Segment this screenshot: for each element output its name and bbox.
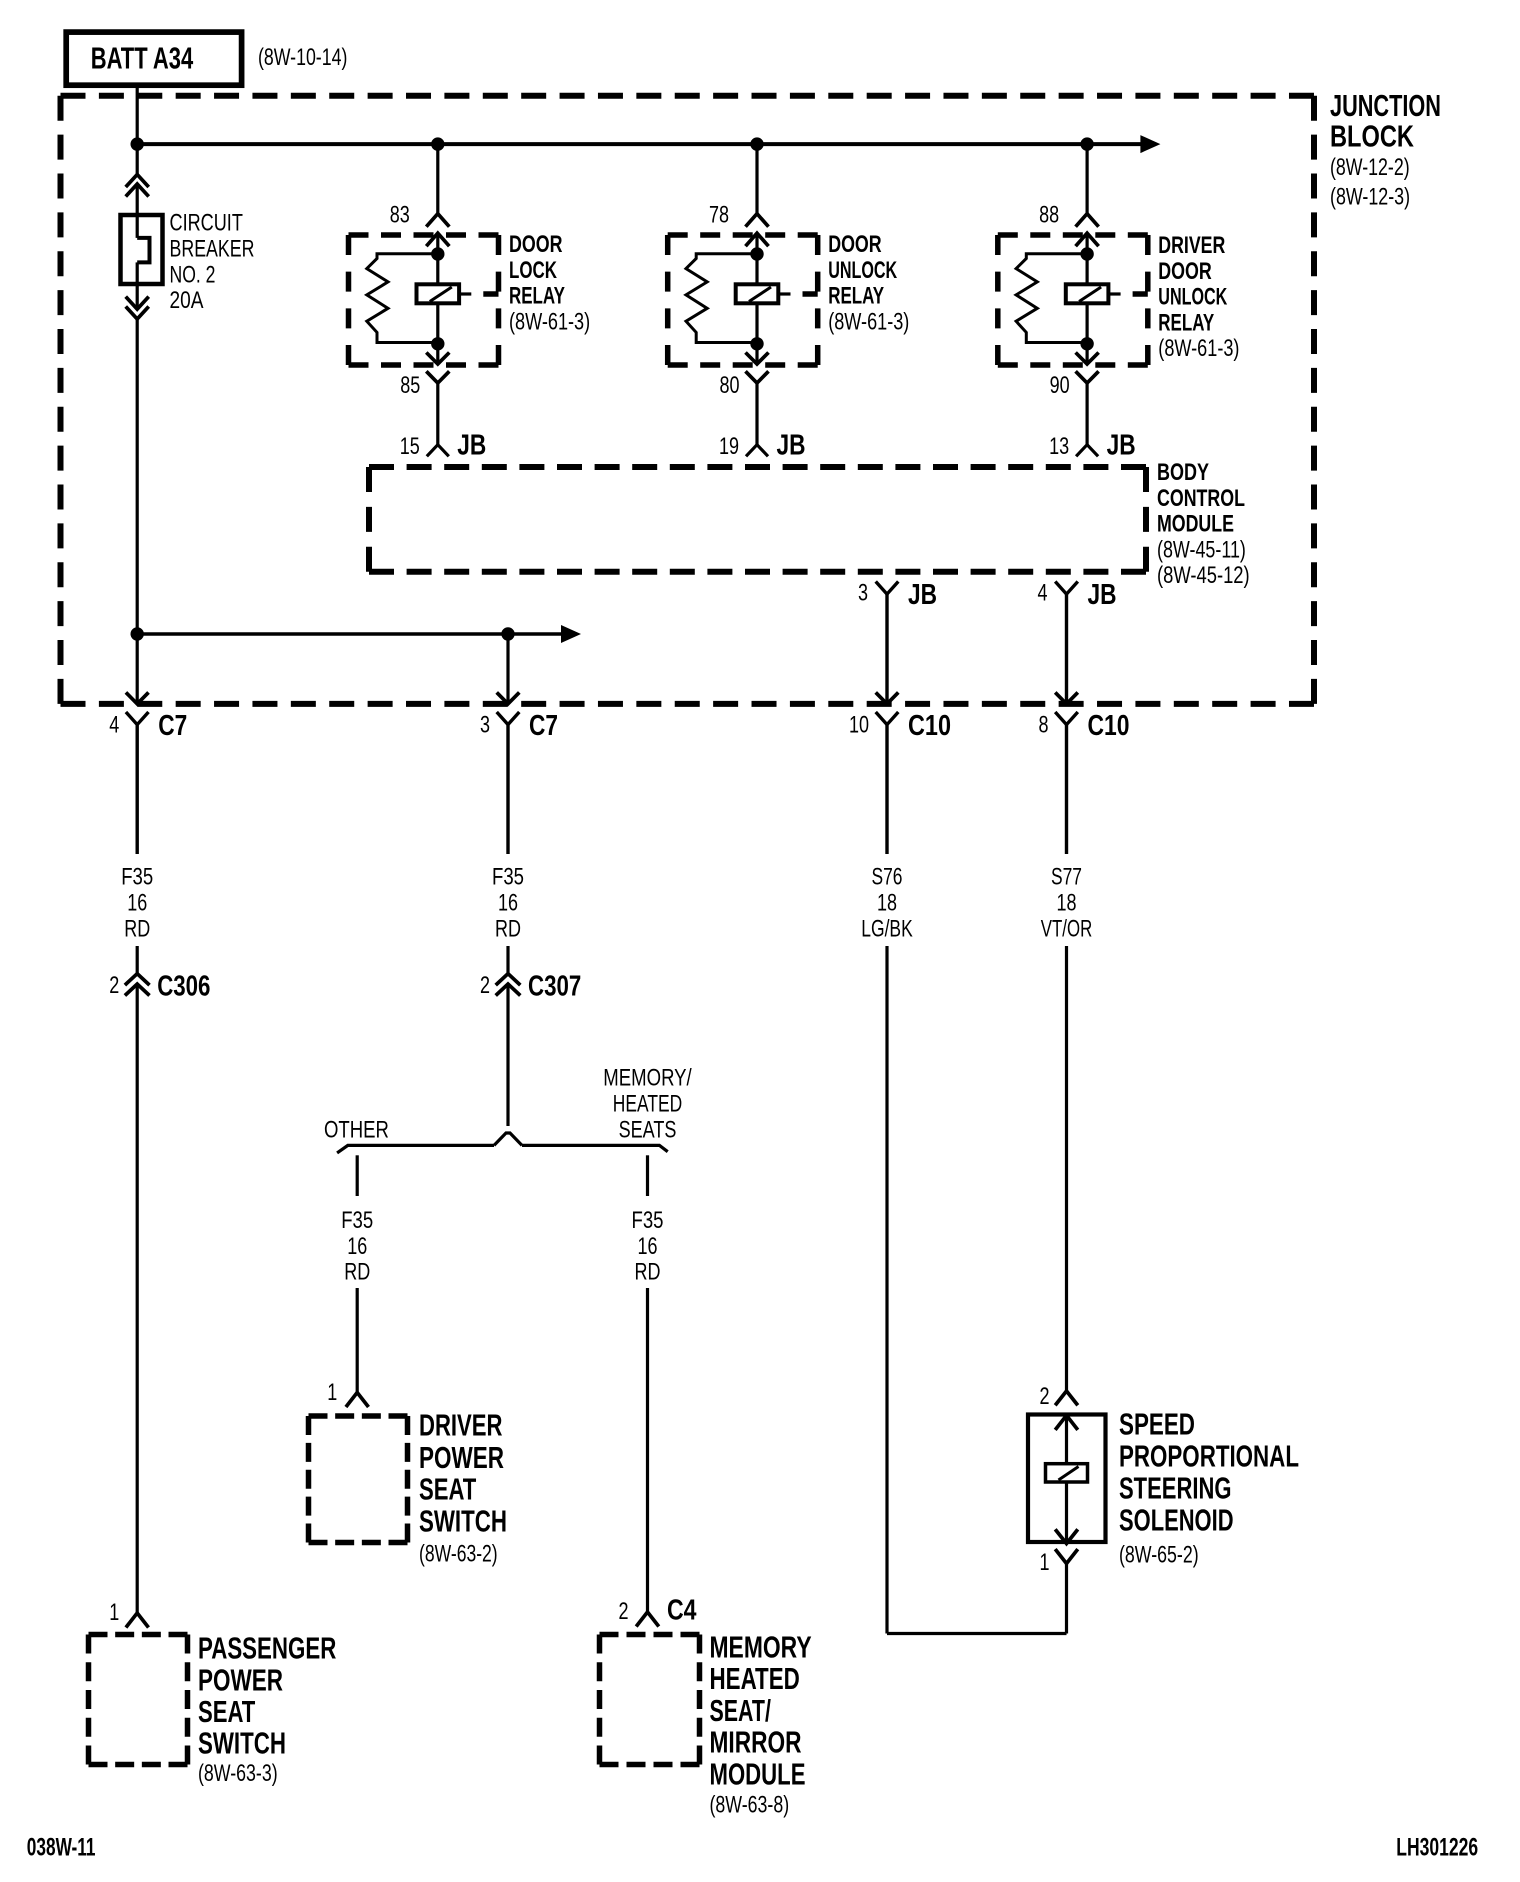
svg-text:CONTROL: CONTROL	[1157, 484, 1245, 511]
BCM top pin 15 JB connector fork	[427, 445, 449, 457]
svg-text:NO. 2: NO. 2	[170, 262, 216, 288]
circuit breaker CB2 body	[121, 215, 163, 284]
svg-text:STEERING: STEERING	[1119, 1471, 1231, 1506]
svg-text:DRIVER: DRIVER	[1158, 231, 1225, 258]
svg-text:(8W-61-3): (8W-61-3)	[509, 308, 590, 335]
svg-text:POWER: POWER	[198, 1662, 283, 1697]
svg-text:1: 1	[327, 1380, 337, 1406]
connector chevrons pin 90	[1076, 353, 1099, 365]
svg-text:F35: F35	[341, 1207, 373, 1234]
svg-text:SEAT/: SEAT/	[710, 1693, 772, 1728]
svg-text:16: 16	[637, 1233, 657, 1259]
svg-text:JB: JB	[457, 428, 486, 461]
svg-text:(8W-10-14): (8W-10-14)	[258, 45, 347, 71]
svg-text:19: 19	[719, 434, 739, 460]
wire into relay K3 driver door unlock relay	[1085, 144, 1088, 214]
svg-text:83: 83	[390, 202, 410, 228]
wire S76	[885, 946, 888, 1634]
wire below solenoid pin 1	[1065, 1564, 1068, 1634]
svg-text:8: 8	[1038, 712, 1048, 738]
wire F35 below C7 pin 4	[136, 946, 139, 974]
svg-text:HEATED: HEATED	[613, 1091, 682, 1117]
svg-text:3: 3	[858, 580, 868, 606]
connector C10 pin 8: arrow into junction block edge	[1055, 692, 1078, 704]
coil lead to relay contact (not shown)	[459, 292, 471, 295]
in-line connector C307 chevrons	[496, 974, 521, 986]
svg-text:MODULE: MODULE	[710, 1757, 806, 1792]
wire F35 to driver power seat switch pin 1	[356, 1288, 359, 1393]
passenger power seat switch dashed box	[89, 1632, 188, 1638]
arrowhead bus continuation	[1140, 135, 1160, 153]
svg-text:JB: JB	[1107, 428, 1136, 461]
svg-text:SOLENOID: SOLENOID	[1119, 1503, 1234, 1538]
svg-text:SEAT: SEAT	[198, 1694, 256, 1729]
junction node at circuit breaker column	[131, 627, 144, 640]
svg-text:15: 15	[400, 434, 420, 460]
svg-text:18: 18	[877, 890, 897, 916]
svg-text:UNLOCK: UNLOCK	[828, 257, 897, 284]
junction node feeding C7 pin 3	[501, 627, 514, 640]
memory heated seat / mirror module dashed box	[600, 1632, 700, 1638]
BCM top pin 19 JB connector fork	[746, 445, 768, 457]
relay K1 door lock relay box	[349, 232, 499, 238]
svg-text:VT/OR: VT/OR	[1041, 916, 1092, 943]
svg-text:MEMORY/: MEMORY/	[603, 1064, 691, 1091]
memory heated seat module pin 2 C4 connector	[636, 1612, 659, 1627]
svg-text:(8W-65-2): (8W-65-2)	[1119, 1542, 1199, 1568]
relay K2 door unlock relay box	[668, 232, 818, 238]
coil supply node in relay K1 door lock relay	[431, 247, 444, 260]
connector C10 pin 8 fork	[1055, 712, 1078, 725]
svg-text:PASSENGER: PASSENGER	[198, 1631, 336, 1665]
svg-text:RD: RD	[495, 916, 521, 942]
svg-text:4: 4	[109, 712, 119, 738]
in-line connector C306 chevrons	[125, 974, 150, 986]
junction node on bus at driver door unlock relay	[1080, 137, 1093, 150]
svg-text:C10: C10	[908, 709, 951, 742]
svg-text:1: 1	[109, 1600, 119, 1626]
wire from BATT A34 into junction block	[136, 85, 139, 175]
svg-text:SEAT: SEAT	[419, 1472, 477, 1507]
svg-text:RD: RD	[635, 1259, 661, 1285]
relay coil of relay K1 door lock relay	[436, 303, 439, 364]
svg-text:C306: C306	[157, 971, 210, 1002]
svg-text:SWITCH: SWITCH	[419, 1504, 507, 1538]
svg-text:(8W-63-8): (8W-63-8)	[710, 1792, 790, 1818]
svg-text:JB: JB	[777, 428, 806, 461]
svg-text:F35: F35	[632, 1207, 664, 1234]
svg-text:LOCK: LOCK	[509, 257, 557, 284]
svg-text:C7: C7	[158, 708, 187, 741]
wire S77	[1065, 946, 1068, 1391]
svg-text:DRIVER: DRIVER	[419, 1408, 502, 1443]
svg-text:2: 2	[618, 1599, 628, 1625]
body control module dashed box	[369, 464, 1146, 470]
svg-text:90: 90	[1050, 373, 1070, 399]
branch wire to driver power seat switch	[356, 1155, 359, 1196]
coil lead to relay contact (not shown)	[1108, 292, 1120, 295]
svg-text:88: 88	[1039, 202, 1059, 228]
bus wire B(+) across junction block	[137, 142, 1142, 146]
relay coil of relay K2 door unlock relay	[755, 303, 758, 364]
svg-text:PROPORTIONAL: PROPORTIONAL	[1119, 1439, 1299, 1473]
svg-text:80: 80	[719, 373, 739, 399]
passenger power seat switch pin 1 connector	[126, 1613, 149, 1628]
resistor in relay K2 door unlock relay	[686, 254, 757, 343]
svg-text:JB: JB	[908, 577, 937, 610]
svg-text:16: 16	[127, 890, 147, 916]
svg-text:UNLOCK: UNLOCK	[1158, 283, 1227, 310]
connector C10 pin 10 fork	[876, 712, 899, 725]
svg-text:(8W-12-2): (8W-12-2)	[1330, 155, 1410, 181]
driver power seat switch dashed box	[309, 1413, 408, 1419]
svg-text:BATT A34: BATT A34	[91, 41, 194, 76]
svg-text:85: 85	[400, 373, 420, 399]
solenoid coil	[1046, 1464, 1088, 1482]
svg-text:18: 18	[1056, 890, 1076, 916]
svg-text:BODY: BODY	[1157, 458, 1209, 485]
connector C7 pin 3: arrow into junction block edge	[497, 692, 520, 704]
svg-text:DOOR: DOOR	[1158, 257, 1212, 284]
svg-text:20A: 20A	[170, 286, 204, 314]
svg-text:BLOCK: BLOCK	[1330, 118, 1414, 153]
svg-text:(8W-45-12): (8W-45-12)	[1157, 562, 1250, 589]
svg-text:MIRROR: MIRROR	[710, 1724, 802, 1759]
svg-text:C307: C307	[528, 971, 581, 1002]
svg-text:RELAY: RELAY	[1158, 309, 1214, 336]
feed branch wire with arrow	[137, 632, 562, 635]
svg-text:F35: F35	[121, 863, 153, 890]
svg-text:JB: JB	[1088, 577, 1117, 610]
relay K3 driver door unlock relay box	[998, 232, 1148, 238]
coil supply node in relay K2 door unlock relay	[750, 247, 763, 260]
svg-text:(8W-63-2): (8W-63-2)	[419, 1541, 498, 1567]
in-line connector chevrons above circuit breaker	[126, 175, 149, 188]
svg-text:(8W-61-3): (8W-61-3)	[828, 308, 909, 335]
svg-text:DOOR: DOOR	[828, 230, 882, 257]
svg-text:LH301226: LH301226	[1396, 1832, 1478, 1861]
svg-text:C7: C7	[529, 708, 558, 741]
connector C10 pin 10: arrow into junction block edge	[876, 692, 899, 704]
junction block dashed border	[61, 93, 1315, 99]
driver power seat switch pin 1 connector	[346, 1393, 369, 1408]
coil lead to relay contact (not shown)	[778, 292, 790, 295]
BATT A34 label box	[66, 32, 241, 85]
splice wire S76 to solenoid return	[887, 1632, 1067, 1635]
wire into relay K1 door lock relay	[436, 144, 439, 214]
svg-text:MEMORY: MEMORY	[710, 1629, 812, 1664]
svg-text:BREAKER: BREAKER	[170, 236, 255, 262]
circuit breaker bimetal jog	[137, 238, 149, 263]
connector chevrons pin 88	[1076, 214, 1099, 227]
wire into relay K2 door unlock relay	[755, 144, 758, 214]
svg-text:RD: RD	[344, 1259, 370, 1285]
solenoid pin 2 connector chevrons	[1055, 1391, 1078, 1405]
junction node on bus at circuit breaker	[131, 137, 144, 150]
svg-text:SWITCH: SWITCH	[198, 1726, 286, 1760]
svg-text:RELAY: RELAY	[509, 283, 565, 310]
solenoid pin 1 connector chevrons	[1055, 1529, 1078, 1543]
svg-text:CIRCUIT: CIRCUIT	[170, 209, 243, 236]
svg-text:(8W-12-3): (8W-12-3)	[1330, 184, 1410, 210]
connector C7 pin 4 fork	[126, 712, 149, 725]
coil supply node in relay K3 driver door unlock relay	[1080, 247, 1093, 260]
svg-text:C4: C4	[667, 1593, 697, 1626]
speed proportional steering solenoid box	[1028, 1415, 1106, 1543]
svg-text:16: 16	[347, 1233, 367, 1259]
connector C7 pin 4: arrow into junction block edge	[126, 692, 149, 704]
svg-text:2: 2	[109, 973, 119, 999]
svg-text:LG/BK: LG/BK	[861, 916, 912, 942]
svg-text:S77: S77	[1051, 864, 1082, 890]
svg-text:(8W-63-3): (8W-63-3)	[198, 1761, 278, 1787]
coil ground node in relay K1 door lock relay	[431, 337, 444, 350]
connector chevrons pin 78	[746, 214, 769, 227]
svg-text:HEATED: HEATED	[710, 1662, 800, 1696]
wire F35 to memory heated seat module pin 2	[646, 1288, 649, 1612]
svg-text:SPEED: SPEED	[1119, 1407, 1195, 1441]
connector C7 pin 3 fork	[497, 712, 520, 725]
svg-text:13: 13	[1049, 434, 1069, 460]
coil ground node in relay K3 driver door unlock relay	[1080, 337, 1093, 350]
svg-text:DOOR: DOOR	[509, 230, 563, 257]
junction node on bus at door lock relay	[431, 137, 444, 150]
svg-text:(8W-45-11): (8W-45-11)	[1157, 537, 1246, 563]
svg-text:3: 3	[480, 712, 490, 738]
svg-text:038W-11: 038W-11	[27, 1833, 96, 1861]
junction node on bus at door unlock relay	[750, 137, 763, 150]
wire from node to C7 pin 3	[506, 634, 509, 703]
splice bracket from C307 to OTHER / MEMORY-HEATED SEATS	[494, 1133, 522, 1145]
svg-text:10: 10	[849, 712, 869, 738]
wire through solenoid	[1065, 1415, 1068, 1543]
svg-text:F35: F35	[492, 863, 524, 890]
wire below circuit breaker	[136, 262, 139, 309]
svg-text:2: 2	[1039, 1384, 1049, 1410]
svg-text:POWER: POWER	[419, 1439, 504, 1474]
svg-text:MODULE: MODULE	[1157, 510, 1234, 537]
connector chevrons pin 85	[426, 353, 449, 365]
resistor in relay K3 driver door unlock relay	[1016, 254, 1087, 343]
BCM bottom pin 3 JB connector fork	[876, 582, 899, 595]
coil ground node in relay K2 door unlock relay	[750, 337, 763, 350]
svg-text:1: 1	[1039, 1550, 1049, 1576]
svg-text:C10: C10	[1088, 708, 1130, 741]
BCM bottom pin 4 JB connector fork	[1055, 582, 1078, 595]
svg-text:2: 2	[480, 973, 490, 999]
connector chevrons pin 83	[426, 214, 449, 227]
svg-text:RELAY: RELAY	[828, 283, 884, 310]
resistor in relay K1 door lock relay	[367, 254, 438, 343]
svg-text:4: 4	[1037, 580, 1047, 606]
svg-text:SEATS: SEATS	[619, 1117, 677, 1143]
relay coil of relay K3 driver door unlock relay	[1085, 303, 1088, 364]
svg-text:OTHER: OTHER	[324, 1116, 389, 1143]
branch wire to memory heated seat module	[646, 1155, 649, 1196]
connector chevrons pin 80	[746, 353, 769, 365]
svg-text:78: 78	[709, 202, 729, 228]
wire F35 below C7 pin 3	[506, 946, 509, 974]
svg-text:(8W-61-3): (8W-61-3)	[1158, 335, 1239, 362]
svg-text:RD: RD	[124, 916, 150, 942]
svg-text:S76: S76	[871, 864, 902, 890]
svg-text:16: 16	[498, 890, 518, 916]
connector chevrons below circuit breaker	[126, 297, 149, 310]
BCM top pin 13 JB connector fork	[1076, 445, 1098, 457]
